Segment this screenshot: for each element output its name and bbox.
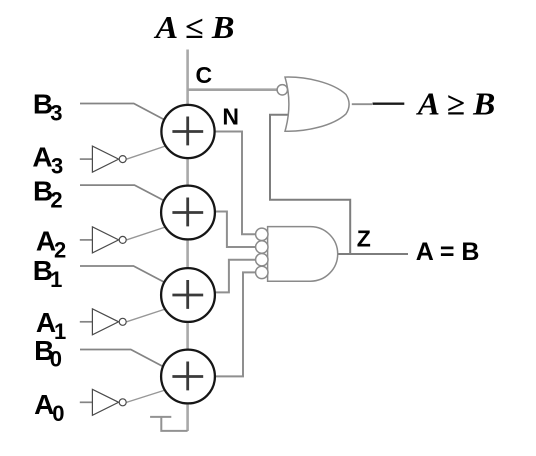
svg-text:C: C bbox=[196, 62, 213, 88]
wire: input B0 bbox=[80, 350, 172, 372]
wire: node N from adder1 sum to NAND input 1 bbox=[214, 132, 256, 235]
wire: input stub A0 bbox=[80, 401, 93, 403]
ground (carry-in tied low) bbox=[150, 417, 188, 431]
svg-text:A = B: A = B bbox=[416, 238, 480, 266]
inverter A0 bbox=[92, 389, 126, 415]
svg-text:2: 2 bbox=[54, 238, 66, 263]
AND gate input bubble 3 bbox=[256, 254, 268, 266]
AND gate input bubble 2 bbox=[256, 241, 268, 253]
wire: OR gate output bbox=[352, 103, 372, 105]
wire: inverter A0 output to adder4 bbox=[127, 389, 170, 403]
adder FA1 (bit 1) bbox=[161, 268, 215, 322]
AND gate (Z / A = B gate) bbox=[268, 227, 338, 282]
svg-text:0: 0 bbox=[50, 346, 62, 371]
svg-text:N: N bbox=[222, 103, 239, 129]
wire: input stub A3 bbox=[80, 158, 93, 160]
svg-text:2: 2 bbox=[50, 188, 62, 213]
wire: Z node feedback to OR gate lower input bbox=[270, 115, 350, 254]
svg-text:1: 1 bbox=[54, 319, 66, 344]
svg-text:A ≥ B: A ≥ B bbox=[416, 86, 496, 122]
AND gate input bubble 4 bbox=[256, 266, 268, 278]
wire: input stub A1 bbox=[80, 321, 93, 323]
wire: adder2 sum to NAND input 2 bbox=[214, 212, 256, 248]
svg-text:0: 0 bbox=[52, 401, 64, 426]
wire: adder4 sum to NAND input 4 bbox=[214, 272, 256, 376]
svg-text:3: 3 bbox=[50, 100, 62, 125]
wire: node C to OR gate input bubble bbox=[188, 88, 278, 91]
inverter A1 bbox=[92, 309, 126, 335]
wire: input B3 bbox=[80, 104, 172, 124]
OR gate inverted-input bubble bbox=[277, 85, 287, 95]
adder FA2 (bit 2) bbox=[161, 186, 215, 240]
svg-text:A ≤ B: A ≤ B bbox=[153, 9, 234, 45]
wire: input stub A2 bbox=[80, 239, 93, 241]
wire: input B2 bbox=[80, 185, 172, 205]
dash before A >= B label bbox=[373, 102, 405, 104]
wire: inverter A3 output to adder1 bbox=[127, 145, 170, 160]
inverter A3 bbox=[92, 146, 126, 172]
wire: adder3 sum to NAND input 3 bbox=[214, 260, 256, 293]
adder FA3 (top full adder, bit 3) bbox=[161, 105, 214, 158]
wire: inverter A2 output to adder2 bbox=[127, 226, 170, 240]
AND gate input bubble 1 bbox=[256, 228, 268, 240]
svg-text:A: A bbox=[32, 142, 52, 173]
svg-text:1: 1 bbox=[50, 267, 62, 292]
wire: input B1 bbox=[80, 266, 172, 286]
svg-text:Z: Z bbox=[357, 226, 371, 252]
inverter A2 bbox=[92, 227, 126, 253]
wire: inverter A1 output to adder3 bbox=[127, 308, 170, 322]
adder FA0 (bottom full adder, bit 0) bbox=[161, 350, 215, 404]
OR gate (A >= B output gate) bbox=[285, 77, 349, 131]
wire: Z output to A = B label bbox=[338, 253, 408, 255]
wire: main vertical carry chain (A&#8804;B line through adders to ground) bbox=[186, 50, 189, 432]
